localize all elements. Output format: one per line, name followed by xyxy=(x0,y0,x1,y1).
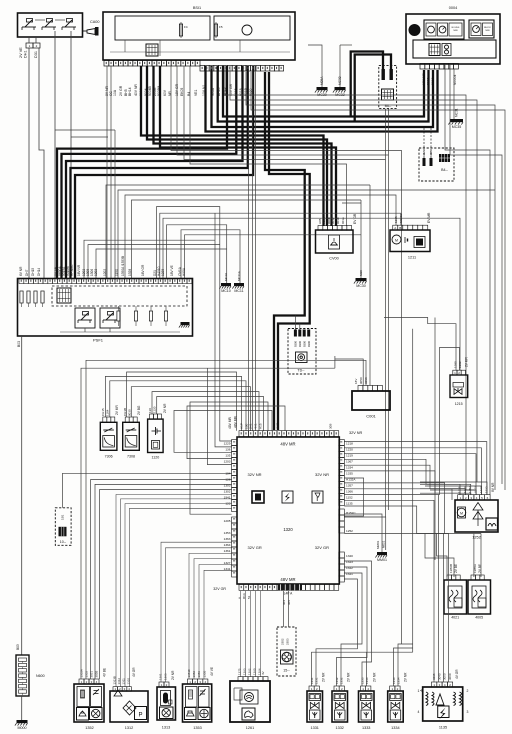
svg-text:1334: 1334 xyxy=(391,726,399,730)
svg-text:4V GR: 4V GR xyxy=(455,669,459,679)
svg-text:1275: 1275 xyxy=(238,668,242,675)
svg-text:9300: 9300 xyxy=(307,341,311,347)
svg-text:1363: 1363 xyxy=(224,537,231,541)
svg-text:1235: 1235 xyxy=(394,216,398,223)
svg-text:2V BG: 2V BG xyxy=(137,405,141,415)
svg-text:1334: 1334 xyxy=(346,466,353,470)
svg-text:M: M xyxy=(395,238,398,242)
svg-text:A: A xyxy=(394,226,396,230)
svg-text:4: 4 xyxy=(418,710,420,714)
svg-text:BSI1: BSI1 xyxy=(193,6,201,10)
svg-text:16V GR: 16V GR xyxy=(141,264,145,276)
svg-text:4V: 4V xyxy=(261,671,265,675)
svg-text:2V NR: 2V NR xyxy=(347,672,351,682)
svg-text:DH1: DH1 xyxy=(24,50,28,58)
svg-text:1331: 1331 xyxy=(310,726,318,730)
svg-text:1382: 1382 xyxy=(458,361,462,368)
svg-text:130: 130 xyxy=(148,408,152,413)
svg-text:B: B xyxy=(399,226,401,230)
svg-text:1364: 1364 xyxy=(224,543,231,547)
svg-text:EV GR: EV GR xyxy=(353,213,357,224)
svg-text:16V NR: 16V NR xyxy=(77,264,81,276)
svg-text:48V MR: 48V MR xyxy=(234,415,238,428)
svg-text:32V GR: 32V GR xyxy=(213,587,226,591)
svg-text:8V NR: 8V NR xyxy=(491,482,495,492)
svg-text:P: P xyxy=(138,713,142,719)
svg-text:1302: 1302 xyxy=(224,490,231,494)
svg-text:MIN: MIN xyxy=(485,30,489,32)
svg-text:1120: 1120 xyxy=(152,456,160,460)
svg-text:10A: 10A xyxy=(113,89,117,96)
svg-text:EK05: EK05 xyxy=(180,88,184,96)
svg-text:4021: 4021 xyxy=(451,616,459,620)
svg-text:M30: M30 xyxy=(359,270,363,276)
svg-text:2302: 2302 xyxy=(281,638,285,645)
svg-text:H152C: H152C xyxy=(346,511,356,515)
svg-text:18V: 18V xyxy=(354,379,358,384)
svg-text:DH7: DH7 xyxy=(25,269,29,276)
svg-text:9004B: 9004B xyxy=(148,85,152,96)
svg-text:48V MR: 48V MR xyxy=(280,442,295,447)
svg-text:15--: 15-- xyxy=(283,669,290,673)
svg-text:9012: 9012 xyxy=(331,217,335,224)
svg-text:9004A: 9004A xyxy=(322,216,326,224)
svg-text:M000: M000 xyxy=(18,726,27,730)
svg-text:2V NR: 2V NR xyxy=(322,672,326,682)
svg-text:H1P: H1P xyxy=(240,423,244,429)
svg-text:1366: 1366 xyxy=(346,490,353,494)
svg-text:H133: H133 xyxy=(474,486,478,493)
svg-text:MC35: MC35 xyxy=(452,125,462,129)
svg-text:1205: 1205 xyxy=(224,519,231,523)
svg-text:2303: 2303 xyxy=(286,638,290,645)
svg-text:9300: 9300 xyxy=(294,341,298,347)
svg-text:1333: 1333 xyxy=(479,486,483,493)
svg-text:PSF1: PSF1 xyxy=(93,338,104,343)
svg-text:135B: 135B xyxy=(202,671,206,678)
svg-text:1328: 1328 xyxy=(128,269,132,276)
svg-text:1352: 1352 xyxy=(85,726,93,730)
svg-text:1229: 1229 xyxy=(224,442,231,446)
svg-text:1202: 1202 xyxy=(94,269,98,276)
svg-text:32V NR: 32V NR xyxy=(349,431,363,435)
svg-text:9300: 9300 xyxy=(302,341,306,347)
svg-text:1321: 1321 xyxy=(346,572,353,576)
svg-text:30B: 30B xyxy=(429,151,433,156)
svg-text:M: M xyxy=(460,511,463,515)
svg-text:1323: 1323 xyxy=(346,560,353,564)
svg-text:1320: 1320 xyxy=(346,554,353,558)
svg-text:1350A /1353B: 1350A /1353B xyxy=(121,256,125,276)
svg-text:N600: N600 xyxy=(36,674,45,678)
svg-text:1B1: 1B1 xyxy=(61,514,65,520)
svg-text:1333: 1333 xyxy=(362,726,370,730)
svg-text:B03: B03 xyxy=(17,341,21,347)
svg-text:BUICK: BUICK xyxy=(484,27,491,29)
svg-text:1312: 1312 xyxy=(125,726,133,730)
svg-text:F5: F5 xyxy=(219,25,223,29)
svg-text:3: 3 xyxy=(467,710,469,714)
svg-text:1332: 1332 xyxy=(335,726,343,730)
svg-text:1357: 1357 xyxy=(346,484,353,488)
svg-text:1218: 1218 xyxy=(346,442,353,446)
svg-text:9300: 9300 xyxy=(298,341,302,347)
svg-text:4V BE: 4V BE xyxy=(103,668,107,677)
svg-text:1202: 1202 xyxy=(103,269,107,276)
svg-text:HPSMC: HPSMC xyxy=(70,264,74,276)
svg-text:1367: 1367 xyxy=(346,460,353,464)
svg-text:1335: 1335 xyxy=(457,486,461,493)
svg-text:1219: 1219 xyxy=(346,454,353,458)
svg-text:0004: 0004 xyxy=(449,6,457,10)
svg-text:1361: 1361 xyxy=(224,549,231,553)
svg-text:D31: D31 xyxy=(34,51,38,58)
svg-text:104: 104 xyxy=(225,472,230,476)
svg-text:1332: 1332 xyxy=(484,486,488,493)
svg-text:1263: 1263 xyxy=(243,668,247,675)
svg-text:1262: 1262 xyxy=(248,668,252,675)
svg-text:1335: 1335 xyxy=(346,472,353,476)
svg-text:TD--: TD-- xyxy=(297,369,305,373)
svg-text:MC10: MC10 xyxy=(224,273,228,281)
svg-text:3051: 3051 xyxy=(90,671,94,678)
svg-text:1135: 1135 xyxy=(439,725,447,729)
svg-text:H95A: H95A xyxy=(182,267,186,276)
svg-text:4HI5: 4HI5 xyxy=(276,422,280,429)
svg-text:7308: 7308 xyxy=(127,455,135,459)
svg-text:7306: 7306 xyxy=(105,455,113,459)
svg-text:3040: 3040 xyxy=(437,673,441,680)
svg-text:B4--: B4-- xyxy=(441,168,449,172)
svg-text:2: 2 xyxy=(467,689,469,693)
svg-text:M021: M021 xyxy=(382,540,386,548)
svg-text:1203: 1203 xyxy=(224,460,231,464)
svg-text:30A: 30A xyxy=(422,151,426,156)
svg-text:40V NR: 40V NR xyxy=(134,84,138,96)
svg-text:1152: 1152 xyxy=(346,496,353,500)
svg-text:9050: 9050 xyxy=(359,377,363,384)
svg-text:2H1: 2H1 xyxy=(249,423,253,429)
svg-text:MC11: MC11 xyxy=(234,289,243,293)
svg-text:A: A xyxy=(238,597,242,599)
svg-text:9010: 9010 xyxy=(336,217,340,224)
svg-text:B6--: B6-- xyxy=(385,104,393,108)
svg-text:304: 304 xyxy=(282,600,286,605)
svg-text:136: 136 xyxy=(225,448,230,452)
svg-text:B03: B03 xyxy=(16,644,20,650)
svg-text:2V MR: 2V MR xyxy=(465,357,469,367)
svg-text:48V MR: 48V MR xyxy=(280,577,295,582)
svg-text:F4: F4 xyxy=(184,25,188,29)
svg-text:32V NR: 32V NR xyxy=(315,472,329,477)
svg-text:MC31: MC31 xyxy=(455,108,459,117)
svg-text:1313: 1313 xyxy=(162,726,170,730)
svg-text:CA00: CA00 xyxy=(90,20,100,24)
svg-text:DH15: DH15 xyxy=(31,268,35,276)
svg-text:1334: 1334 xyxy=(463,486,467,493)
svg-text:1361: 1361 xyxy=(159,673,163,680)
svg-text:32V GR: 32V GR xyxy=(315,545,329,550)
svg-text:1135: 1135 xyxy=(346,502,353,506)
svg-text:MIN: MIN xyxy=(453,30,457,32)
svg-text:32V GR: 32V GR xyxy=(248,545,262,550)
svg-text:4V VE: 4V VE xyxy=(210,667,214,676)
svg-text:1352: 1352 xyxy=(85,671,89,678)
svg-text:MM01: MM01 xyxy=(376,540,380,549)
svg-text:CV00: CV00 xyxy=(329,257,339,261)
svg-text:M0004: M0004 xyxy=(453,75,457,85)
svg-text:135: 135 xyxy=(225,454,230,458)
svg-text:18V VE: 18V VE xyxy=(170,265,174,276)
svg-text:1220: 1220 xyxy=(346,448,353,452)
svg-text:1252: 1252 xyxy=(346,529,353,533)
svg-text:1260: 1260 xyxy=(253,668,257,675)
svg-text:6V NR: 6V NR xyxy=(19,266,23,276)
svg-text:2V VE: 2V VE xyxy=(19,47,23,58)
svg-text:B4: B4 xyxy=(187,92,191,96)
svg-text:1225: 1225 xyxy=(161,269,165,276)
svg-text:BH14: BH14 xyxy=(128,87,132,96)
svg-text:2V NR: 2V NR xyxy=(404,672,408,682)
svg-text:1320: 1320 xyxy=(283,527,293,532)
svg-text:MM01: MM01 xyxy=(377,558,387,562)
svg-text:1150: 1150 xyxy=(115,269,119,276)
svg-text:1120: 1120 xyxy=(153,406,157,413)
svg-text:MC10: MC10 xyxy=(221,289,231,293)
svg-text:1261: 1261 xyxy=(246,726,254,730)
svg-text:2V NR: 2V NR xyxy=(171,670,175,680)
svg-text:901A: 901A xyxy=(341,217,345,224)
svg-text:H15: H15 xyxy=(259,423,263,429)
svg-text:48V MR: 48V MR xyxy=(228,416,232,429)
svg-text:MC11A: MC11A xyxy=(237,271,241,281)
svg-text:2V NR: 2V NR xyxy=(373,672,377,682)
svg-text:NR: NR xyxy=(168,91,172,96)
svg-text:DH14: DH14 xyxy=(37,268,41,276)
svg-text:2V GR: 2V GR xyxy=(119,85,123,96)
svg-text:32V NR: 32V NR xyxy=(248,472,262,477)
svg-text:1380: 1380 xyxy=(454,361,458,368)
svg-text:305: 305 xyxy=(287,600,291,605)
svg-text:13B6B: 13B6B xyxy=(449,564,453,573)
svg-text:CH15: CH15 xyxy=(101,408,105,416)
svg-text:2V MR: 2V MR xyxy=(115,405,119,415)
svg-text:1: 1 xyxy=(418,689,420,693)
svg-text:1352A: 1352A xyxy=(80,669,84,677)
svg-text:30B: 30B xyxy=(329,424,333,429)
svg-text:4V GR: 4V GR xyxy=(132,667,136,677)
svg-text:VE1: VE1 xyxy=(194,89,198,96)
svg-text:60V: 60V xyxy=(163,89,167,96)
svg-text:1322: 1322 xyxy=(346,566,353,570)
svg-text:EV MR: EV MR xyxy=(427,212,431,223)
svg-text:2V BE: 2V BE xyxy=(454,564,458,573)
svg-text:C001: C001 xyxy=(366,414,376,419)
svg-text:1252: 1252 xyxy=(472,536,480,540)
svg-text:MC30: MC30 xyxy=(356,284,366,288)
svg-text:BOUSS: BOUSS xyxy=(452,27,460,29)
svg-text:2V NR: 2V NR xyxy=(163,403,167,413)
svg-text:1211: 1211 xyxy=(408,256,416,260)
svg-text:13B2: 13B2 xyxy=(468,486,472,493)
svg-text:1184: 1184 xyxy=(106,409,110,416)
svg-text:1353: 1353 xyxy=(224,531,231,535)
svg-text:10--: 10-- xyxy=(60,540,67,544)
svg-text:1353: 1353 xyxy=(193,726,201,730)
svg-text:4005: 4005 xyxy=(475,616,483,620)
svg-text:2V BE: 2V BE xyxy=(478,564,482,573)
svg-text:1215: 1215 xyxy=(455,402,463,406)
